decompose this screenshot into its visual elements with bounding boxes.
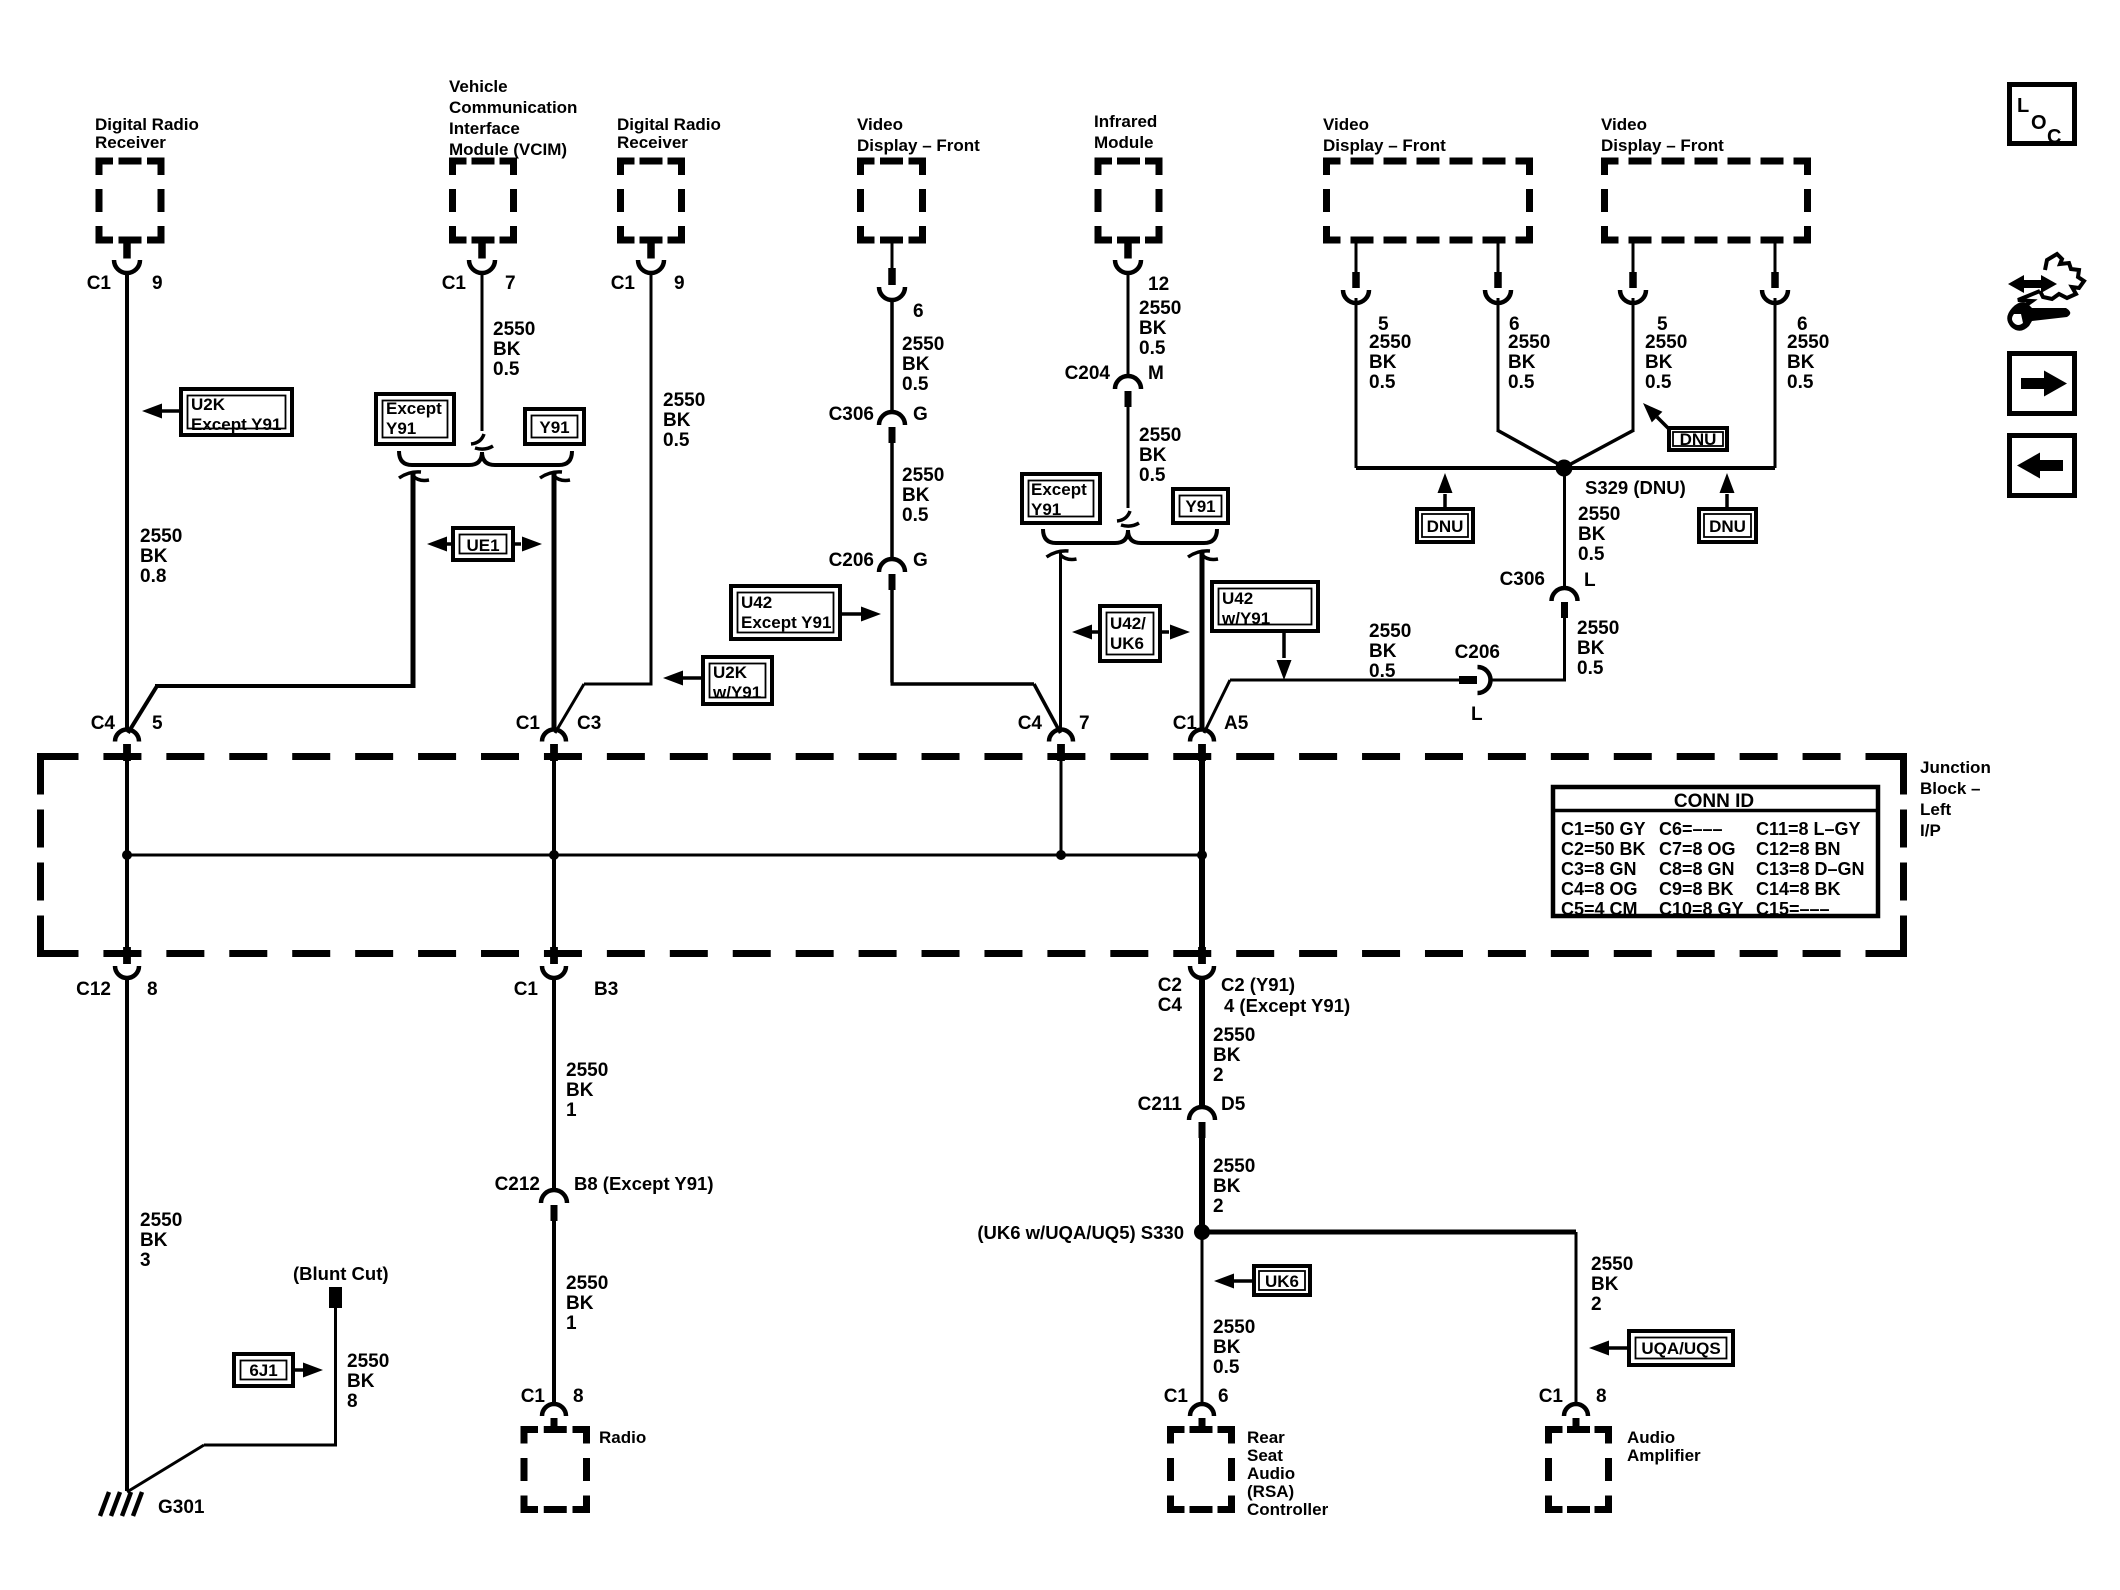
svg-text:2550: 2550 xyxy=(902,334,944,355)
svg-text:Video: Video xyxy=(1601,115,1647,134)
svg-text:2: 2 xyxy=(1213,1065,1224,1086)
svg-text:C12=8 BN: C12=8 BN xyxy=(1756,839,1841,859)
svg-text:0.8: 0.8 xyxy=(140,566,166,587)
junction bus node at x1202 xyxy=(1197,850,1207,860)
svg-text:B8 (Except Y91): B8 (Except Y91) xyxy=(574,1173,714,1194)
svg-text:0.5: 0.5 xyxy=(1369,372,1396,393)
svg-text:C211: C211 xyxy=(1138,1094,1183,1115)
svg-text:12: 12 xyxy=(1148,274,1169,295)
svg-text:C1: C1 xyxy=(1164,1386,1189,1407)
component Video Display - Front #3 (dashed box) xyxy=(1605,161,1619,175)
svg-text:BK: BK xyxy=(1591,1274,1619,1295)
svg-text:C6=–––: C6=––– xyxy=(1659,819,1723,839)
pin 6 of Video Display #3 xyxy=(1774,240,1777,274)
component Radio (dashed box) xyxy=(524,1430,538,1444)
svg-text:BK: BK xyxy=(1213,1045,1241,1066)
svg-text:Module (VCIM): Module (VCIM) xyxy=(449,140,567,159)
svg-text:C1: C1 xyxy=(516,713,541,734)
wire IR right branch to junction C1-A5 xyxy=(1200,552,1205,731)
wire 2550 BK 0.5 from S330 to RSA C1-6 xyxy=(1201,1232,1204,1404)
svg-text:U2K: U2K xyxy=(191,395,226,414)
svg-text:BK: BK xyxy=(1139,318,1167,339)
sub-wire hook left (Except Y91 branch) xyxy=(399,472,421,478)
svg-text:2: 2 xyxy=(1213,1196,1224,1217)
arrow from U42 w/Y91 box down to wire xyxy=(1282,633,1286,658)
svg-text:C1: C1 xyxy=(1173,713,1198,734)
svg-text:Except: Except xyxy=(1031,480,1087,499)
svg-text:U42/: U42/ xyxy=(1110,614,1146,633)
wire IR left branch to junction C4-7 xyxy=(1059,552,1062,731)
svg-text:Y91: Y91 xyxy=(1185,497,1215,516)
svg-text:3: 3 xyxy=(140,1250,151,1271)
arrow from U2K Except Y91 box to DRR1 wire xyxy=(160,409,179,413)
option box Except Y91 (IR) xyxy=(1022,474,1100,523)
svg-text:0.5: 0.5 xyxy=(493,359,520,380)
svg-text:BK: BK xyxy=(1139,445,1167,466)
arrow from UK6 box to RSA wire xyxy=(1234,1279,1252,1283)
component Digital Radio Receiver #1 (dashed box) xyxy=(99,161,113,175)
junction internal wire x554 xyxy=(552,760,556,949)
svg-text:C4=8 OG: C4=8 OG xyxy=(1561,879,1638,899)
arrow from U2K w/Y91 box to DRR2 wire xyxy=(682,676,701,680)
svg-text:0.5: 0.5 xyxy=(902,374,929,395)
svg-text:C3=8 GN: C3=8 GN xyxy=(1561,859,1637,879)
wire 2550 BK 0.5 from DRR2 C1-9 to junction C1-C3 xyxy=(650,271,653,683)
wire 2550 BK 2 from S330 to Audio Amplifier xyxy=(1202,1230,1576,1235)
svg-text:2550: 2550 xyxy=(140,526,182,547)
arrow from 6J1 box to blunt cut wire xyxy=(295,1368,303,1372)
svg-text:Radio: Radio xyxy=(599,1428,646,1447)
svg-text:8: 8 xyxy=(147,979,158,1000)
wire VID2 pin5 to S329 bus xyxy=(1355,298,1358,468)
pin 5 of Video Display #2 xyxy=(1355,240,1358,274)
connector C1 pin 8 of Audio Amplifier xyxy=(1564,1404,1588,1416)
svg-text:Receiver: Receiver xyxy=(95,133,166,152)
svg-text:Display – Front: Display – Front xyxy=(1323,136,1446,155)
svg-text:Display – Front: Display – Front xyxy=(1601,136,1724,155)
svg-text:Infrared: Infrared xyxy=(1094,112,1157,131)
wire 2550 BK 0.5 below C204 xyxy=(1127,407,1130,508)
alternative brace (VCIM split) xyxy=(399,451,572,465)
CONN ID table xyxy=(1553,787,1878,916)
pin 6 of Video Display #1 xyxy=(891,240,894,270)
wire Y91 branch to junction C1-C3 xyxy=(552,473,557,731)
svg-text:Audio: Audio xyxy=(1627,1428,1675,1447)
svg-text:C15=–––: C15=––– xyxy=(1756,899,1830,919)
svg-text:2550: 2550 xyxy=(1213,1317,1255,1338)
wire Except Y91 branch to junction C4-5 xyxy=(411,473,416,686)
alternative brace (IR split) xyxy=(1043,529,1217,543)
svg-text:G301: G301 xyxy=(158,1497,205,1518)
svg-text:2550: 2550 xyxy=(1213,1156,1255,1177)
option box Y91 (VCIM) xyxy=(525,409,584,444)
svg-text:C4: C4 xyxy=(1158,995,1183,1016)
arrows from U42/UK6 box to both branches xyxy=(1092,630,1098,634)
svg-text:BK: BK xyxy=(566,1293,594,1314)
wire end hook (VCIM) xyxy=(471,434,484,444)
svg-text:C9=8 BK: C9=8 BK xyxy=(1659,879,1734,899)
wire 2550 BK 0.5 from C306-L down and left to C206-L xyxy=(1563,618,1566,682)
svg-text:Vehicle: Vehicle xyxy=(449,77,508,96)
svg-text:Display – Front: Display – Front xyxy=(857,136,980,155)
svg-text:8: 8 xyxy=(573,1386,584,1407)
svg-text:6: 6 xyxy=(1218,1386,1229,1407)
svg-text:BK: BK xyxy=(1369,641,1397,662)
svg-text:C1: C1 xyxy=(521,1386,546,1407)
svg-text:2550: 2550 xyxy=(1577,618,1619,639)
inline connector C306 cavity L xyxy=(1552,588,1578,601)
inline connector C204 cavity M xyxy=(1115,376,1141,389)
arrow from UQA/UQS box to amp wire xyxy=(1609,1346,1627,1350)
wire 2550 BK 2 from C211 to splice S330 xyxy=(1199,1138,1205,1232)
option box Y91 (IR) xyxy=(1173,489,1228,523)
svg-text:0.5: 0.5 xyxy=(1787,372,1814,393)
svg-text:2: 2 xyxy=(1591,1294,1602,1315)
svg-text:Interface: Interface xyxy=(449,119,520,138)
component VCIM (dashed box) xyxy=(453,161,467,175)
option box UQA/UQS xyxy=(1629,1331,1733,1365)
svg-text:DNU: DNU xyxy=(1427,517,1464,536)
svg-text:6J1: 6J1 xyxy=(249,1361,277,1380)
svg-text:C2: C2 xyxy=(1158,975,1182,996)
svg-text:Video: Video xyxy=(1323,115,1369,134)
svg-text:6: 6 xyxy=(913,301,924,322)
svg-text:G: G xyxy=(913,550,928,571)
svg-text:(UK6 w/UQA/UQ5) S330: (UK6 w/UQA/UQ5) S330 xyxy=(977,1222,1184,1243)
option box UE1 xyxy=(453,528,513,560)
svg-text:UK6: UK6 xyxy=(1265,1272,1299,1291)
svg-text:BK: BK xyxy=(902,485,930,506)
wire VID3 pin5 to S329 splice xyxy=(1632,298,1635,431)
junction block top connector C1 pin A5 xyxy=(1190,730,1214,742)
svg-text:C1: C1 xyxy=(442,273,467,294)
svg-text:I/P: I/P xyxy=(1920,821,1941,840)
inline connector C206 cavity L xyxy=(1459,676,1477,684)
svg-text:Rear: Rear xyxy=(1247,1428,1285,1447)
option box U2K Except Y91 xyxy=(181,389,292,435)
svg-text:Y91: Y91 xyxy=(1031,500,1061,519)
connector C1 pin 7 of VCIM xyxy=(478,242,486,259)
svg-text:2550: 2550 xyxy=(663,390,705,411)
svg-text:BK: BK xyxy=(1578,524,1606,545)
junction bus node at x1061 xyxy=(1056,850,1066,860)
svg-text:2550: 2550 xyxy=(1508,332,1550,353)
component Rear Seat Audio (RSA) Controller (dashed box) xyxy=(1171,1430,1185,1444)
icon forward-arrow button xyxy=(2010,354,2075,414)
svg-text:0.5: 0.5 xyxy=(1645,372,1672,393)
svg-text:2550: 2550 xyxy=(566,1060,608,1081)
svg-text:C306: C306 xyxy=(829,404,874,425)
svg-text:Controller: Controller xyxy=(1247,1500,1329,1519)
svg-text:Junction: Junction xyxy=(1920,758,1991,777)
svg-text:C2 (Y91): C2 (Y91) xyxy=(1221,974,1295,995)
svg-text:BK: BK xyxy=(1577,638,1605,659)
option box U2K w/Y91 xyxy=(703,657,772,704)
svg-text:2550: 2550 xyxy=(1591,1254,1633,1275)
svg-text:1: 1 xyxy=(566,1100,577,1121)
svg-text:C212: C212 xyxy=(495,1174,540,1195)
svg-text:9: 9 xyxy=(674,273,685,294)
svg-text:2550: 2550 xyxy=(1139,298,1181,319)
svg-text:BK: BK xyxy=(1787,352,1815,373)
inline connector C212 cavity B8 xyxy=(541,1190,567,1203)
svg-text:0.5: 0.5 xyxy=(1577,658,1604,679)
wire end hook (IR) xyxy=(1117,511,1130,521)
svg-text:UQA/UQS: UQA/UQS xyxy=(1641,1339,1720,1358)
icon back-arrow button xyxy=(2010,436,2075,496)
junction internal wire x127 xyxy=(125,760,129,949)
svg-text:C204: C204 xyxy=(1065,363,1111,384)
svg-text:0.5: 0.5 xyxy=(1213,1357,1240,1378)
svg-text:C206: C206 xyxy=(829,550,874,571)
svg-text:w/Y91: w/Y91 xyxy=(1221,609,1270,628)
arrows from UE1 box to both branch wires xyxy=(446,542,451,546)
option box UK6 xyxy=(1254,1266,1310,1295)
svg-text:2550: 2550 xyxy=(902,465,944,486)
svg-text:Video: Video xyxy=(857,115,903,134)
svg-text:2550: 2550 xyxy=(347,1351,389,1372)
svg-text:C13=8 D–GN: C13=8 D–GN xyxy=(1756,859,1865,879)
svg-text:Digital Radio: Digital Radio xyxy=(95,115,199,134)
sub-wire hook left (IR branch to C4-7) xyxy=(1047,551,1069,557)
svg-text:(Blunt Cut): (Blunt Cut) xyxy=(293,1263,389,1284)
svg-text:D5: D5 xyxy=(1221,1094,1246,1115)
option box DNU (lower left, arrow up) xyxy=(1417,509,1473,542)
svg-text:4 (Except Y91): 4 (Except Y91) xyxy=(1224,995,1350,1016)
svg-text:2550: 2550 xyxy=(1369,621,1411,642)
svg-text:S329 (DNU): S329 (DNU) xyxy=(1585,477,1686,498)
svg-text:C3: C3 xyxy=(577,713,601,734)
svg-text:C1=50 GY: C1=50 GY xyxy=(1561,819,1646,839)
junction internal wire x1061 xyxy=(1060,760,1063,855)
connector C1 pin 12 of Infrared Module xyxy=(1124,242,1132,259)
connector C1 pin 9 of Digital Radio Receiver #2 xyxy=(647,242,655,259)
svg-text:Communication: Communication xyxy=(449,98,577,117)
svg-text:UK6: UK6 xyxy=(1110,634,1144,653)
svg-text:C1: C1 xyxy=(514,979,539,1000)
svg-text:8: 8 xyxy=(1596,1386,1607,1407)
svg-text:L: L xyxy=(2017,95,2029,117)
svg-text:0.5: 0.5 xyxy=(1508,372,1535,393)
svg-text:Audio: Audio xyxy=(1247,1464,1295,1483)
connector C1 pin 8 of Radio xyxy=(542,1404,566,1416)
svg-text:Except: Except xyxy=(386,399,442,418)
wire 2550 BK 2 from junction C2/C4 to C211 xyxy=(1199,977,1205,1108)
icon wiring-repair (double arrow + profile + wrench) xyxy=(2008,275,2057,293)
wire from C206-G to junction C4-7 xyxy=(890,590,894,683)
junction block bottom connector C12 pin 8 xyxy=(123,947,131,964)
pin 5 of Video Display #3 xyxy=(1632,240,1635,274)
wire 2550 BK 1 from C212 to Radio C1-8 xyxy=(552,1221,556,1404)
svg-text:C8=8 GN: C8=8 GN xyxy=(1659,859,1735,879)
svg-text:5: 5 xyxy=(152,713,163,734)
svg-text:2550: 2550 xyxy=(1213,1025,1255,1046)
option box DNU (lower right, arrow up) xyxy=(1699,509,1756,542)
wire 2550 BK 1 from junction C1-B3 to C212 xyxy=(552,977,556,1191)
inline connector C306 cavity G xyxy=(879,412,905,425)
option box DNU (upper, with diagonal arrow) xyxy=(1669,428,1727,450)
svg-text:C1: C1 xyxy=(1539,1386,1564,1407)
svg-text:BK: BK xyxy=(566,1080,594,1101)
svg-text:7: 7 xyxy=(505,273,516,294)
icon LOC box xyxy=(2010,85,2075,144)
component Video Display - Front #1 (dashed box) xyxy=(861,161,875,175)
svg-text:2550: 2550 xyxy=(493,319,535,340)
sub-wire hook right (Y91 branch) xyxy=(540,472,562,478)
wire 2550 BK 3 from junction C12-8 to ground G301 xyxy=(125,977,129,1491)
svg-text:Receiver: Receiver xyxy=(617,133,688,152)
wire 2550 BK 0.5 VID1 pin6 to C306 xyxy=(890,298,894,413)
svg-text:DNU: DNU xyxy=(1680,430,1717,449)
svg-text:0.5: 0.5 xyxy=(1139,338,1166,359)
option box 6J1 xyxy=(234,1354,293,1386)
svg-text:1: 1 xyxy=(566,1313,577,1334)
option box Except Y91 (VCIM) xyxy=(376,394,454,444)
wire 2550 BK 0.5 from IR pin 12 to C204 xyxy=(1127,271,1130,377)
sub-wire hook right (IR branch to C1-A5) xyxy=(1188,551,1210,557)
svg-text:C5=4 CM: C5=4 CM xyxy=(1561,899,1638,919)
svg-text:C11=8 L–GY: C11=8 L–GY xyxy=(1756,819,1861,839)
option box U42/UK6 xyxy=(1100,606,1160,661)
svg-text:C12: C12 xyxy=(76,979,111,1000)
svg-text:C10=8 GY: C10=8 GY xyxy=(1659,899,1744,919)
svg-text:DNU: DNU xyxy=(1709,517,1746,536)
svg-text:Y91: Y91 xyxy=(386,419,416,438)
svg-text:Y91: Y91 xyxy=(539,418,569,437)
component Video Display - Front #2 (dashed box) xyxy=(1327,161,1341,175)
svg-text:0.5: 0.5 xyxy=(1578,544,1605,565)
svg-text:Amplifier: Amplifier xyxy=(1627,1446,1701,1465)
svg-text:Left: Left xyxy=(1920,800,1952,819)
svg-text:BK: BK xyxy=(347,1371,375,1392)
wire VID2 pin6 to S329 splice xyxy=(1497,298,1500,431)
ground G301 xyxy=(100,1492,109,1516)
component Audio Amplifier (dashed box) xyxy=(1549,1430,1563,1444)
svg-text:(RSA): (RSA) xyxy=(1247,1482,1294,1501)
splice S329 (DNU) dot xyxy=(1556,460,1573,477)
junction block bottom connector C1 pin B3 xyxy=(550,947,558,964)
svg-text:C4: C4 xyxy=(1018,713,1043,734)
svg-text:C2=50 BK: C2=50 BK xyxy=(1561,839,1646,859)
component Digital Radio Receiver #2 (dashed box) xyxy=(621,161,635,175)
junction block top connector C1 pin C3 xyxy=(542,730,566,742)
svg-text:2550: 2550 xyxy=(1139,425,1181,446)
svg-text:2550: 2550 xyxy=(566,1273,608,1294)
svg-text:2550: 2550 xyxy=(1787,332,1829,353)
svg-text:2550: 2550 xyxy=(1645,332,1687,353)
svg-text:U42: U42 xyxy=(741,593,772,612)
pin 6 of Video Display #2 xyxy=(1497,240,1500,274)
arrow from U42 Except Y91 box to VID1 wire xyxy=(842,612,861,616)
junction internal wire x1202 xyxy=(1199,760,1205,949)
svg-text:C206: C206 xyxy=(1455,642,1500,663)
splice S330 xyxy=(1194,1224,1210,1240)
junction block bottom connector C2/C4 xyxy=(1198,947,1206,964)
svg-text:C1: C1 xyxy=(611,273,636,294)
svg-text:0.5: 0.5 xyxy=(1139,465,1166,486)
inline connector C211 cavity D5 xyxy=(1189,1107,1215,1120)
svg-text:w/Y91: w/Y91 xyxy=(712,683,761,702)
svg-text:C7=8 OG: C7=8 OG xyxy=(1659,839,1736,859)
svg-text:M: M xyxy=(1148,363,1164,384)
option box U42 Except Y91 xyxy=(731,586,840,639)
svg-text:2550: 2550 xyxy=(140,1210,182,1231)
svg-text:Seat: Seat xyxy=(1247,1446,1283,1465)
wire 2550 BK 0.5 from VCIM C1-7 xyxy=(481,271,484,431)
junction block - Left I/P (dashed outline) xyxy=(41,757,79,795)
svg-text:Digital Radio: Digital Radio xyxy=(617,115,721,134)
junction bus node at x554 xyxy=(549,850,559,860)
svg-text:BK: BK xyxy=(1645,352,1673,373)
connector C1 pin 9 of Digital Radio Receiver #1 xyxy=(123,242,131,259)
svg-text:9: 9 xyxy=(152,273,163,294)
svg-text:C4: C4 xyxy=(91,713,116,734)
internal bus wire of junction block xyxy=(127,854,1202,857)
svg-text:0.5: 0.5 xyxy=(663,430,690,451)
svg-text:BK: BK xyxy=(663,410,691,431)
option box U42 w/Y91 xyxy=(1212,582,1318,631)
svg-text:2550: 2550 xyxy=(1369,332,1411,353)
svg-text:O: O xyxy=(2031,112,2047,134)
wire 2550 BK 0.5 from S329 to C306-L xyxy=(1563,468,1566,588)
svg-text:C1: C1 xyxy=(87,273,112,294)
svg-text:C: C xyxy=(2047,126,2061,148)
svg-text:BK: BK xyxy=(493,339,521,360)
connector C1 pin 6 of RSA controller xyxy=(1190,1404,1214,1416)
junction block top connector C4 pin 7 xyxy=(1049,730,1073,742)
svg-text:C14=8 BK: C14=8 BK xyxy=(1756,879,1841,899)
svg-text:L: L xyxy=(1584,570,1596,591)
svg-text:7: 7 xyxy=(1079,713,1090,734)
svg-text:UE1: UE1 xyxy=(466,536,499,555)
wire 2550 BK 0.5 C306 to C206 xyxy=(890,443,894,560)
component Infrared Module (dashed box) xyxy=(1098,161,1112,175)
svg-text:BK: BK xyxy=(902,354,930,375)
svg-text:2550: 2550 xyxy=(1578,504,1620,525)
svg-text:8: 8 xyxy=(347,1391,358,1412)
svg-text:L: L xyxy=(1471,704,1483,725)
wire VID3 pin6 to S329 bus xyxy=(1774,298,1777,468)
svg-text:A5: A5 xyxy=(1224,713,1249,734)
svg-text:Module: Module xyxy=(1094,133,1154,152)
svg-text:BK: BK xyxy=(140,1230,168,1251)
svg-text:B3: B3 xyxy=(594,979,618,1000)
svg-text:U2K: U2K xyxy=(713,663,748,682)
svg-text:BK: BK xyxy=(1508,352,1536,373)
svg-text:0.5: 0.5 xyxy=(1369,661,1396,682)
wire S329 horizontal bus xyxy=(1356,466,1775,470)
wire 2550 BK 0.5 from C206-L to junction C1-A5 xyxy=(1230,679,1459,682)
junction block top connector C4 pin 5 xyxy=(115,730,139,742)
inline connector C206 cavity G xyxy=(879,559,905,572)
svg-text:C306: C306 xyxy=(1500,569,1545,590)
svg-text:G: G xyxy=(913,404,928,425)
svg-text:Block –: Block – xyxy=(1920,779,1980,798)
svg-text:Except Y91: Except Y91 xyxy=(191,415,281,434)
svg-text:BK: BK xyxy=(1213,1337,1241,1358)
svg-text:BK: BK xyxy=(1213,1176,1241,1197)
svg-text:Except Y91: Except Y91 xyxy=(741,613,831,632)
svg-text:BK: BK xyxy=(140,546,168,567)
svg-text:0.5: 0.5 xyxy=(902,505,929,526)
svg-text:U42: U42 xyxy=(1222,589,1253,608)
svg-text:CONN ID: CONN ID xyxy=(1674,791,1754,812)
wire 2550 BK 0.8 from DRR1 C1-9 to junction block C4-5 xyxy=(125,271,129,731)
svg-text:BK: BK xyxy=(1369,352,1397,373)
junction bus node at x127 xyxy=(122,850,132,860)
